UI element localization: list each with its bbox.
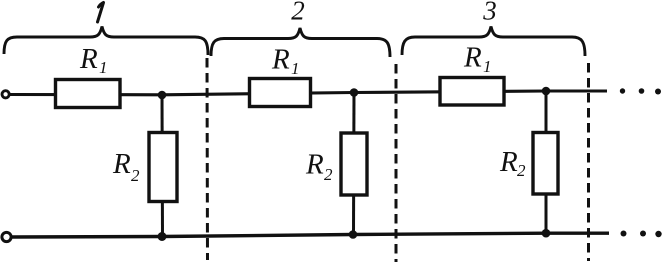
svg-text:R: R — [499, 146, 518, 178]
svg-text:2: 2 — [324, 165, 333, 184]
svg-text:2: 2 — [291, 0, 305, 26]
svg-text:R: R — [271, 44, 290, 76]
svg-text:R: R — [463, 42, 482, 74]
svg-text:1: 1 — [99, 58, 108, 77]
svg-text:1: 1 — [291, 59, 300, 78]
svg-text:3: 3 — [482, 0, 497, 26]
svg-text:2: 2 — [517, 161, 526, 180]
svg-text:R: R — [112, 148, 131, 180]
svg-text:1: 1 — [483, 57, 492, 76]
svg-text:R: R — [305, 149, 324, 181]
svg-text:R: R — [79, 43, 98, 75]
svg-text:2: 2 — [131, 166, 140, 185]
